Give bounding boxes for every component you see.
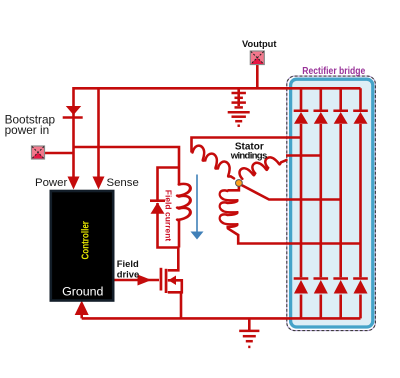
- svg-text:Voutput: Voutput: [242, 39, 276, 49]
- svg-text:windings: windings: [230, 150, 268, 161]
- svg-text:Sense: Sense: [107, 177, 139, 189]
- svg-text:Rectifier bridge: Rectifier bridge: [302, 66, 365, 77]
- svg-text:drive: drive: [117, 269, 139, 280]
- svg-text:Controller: Controller: [81, 221, 92, 260]
- svg-text:Field current: Field current: [163, 190, 173, 242]
- svg-text:Field: Field: [117, 258, 139, 269]
- svg-text:power in: power in: [5, 123, 50, 137]
- svg-text:Power: Power: [35, 177, 67, 189]
- svg-text:Ground: Ground: [62, 284, 103, 298]
